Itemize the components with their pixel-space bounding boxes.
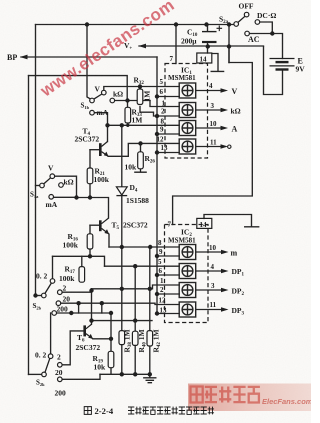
S2a pole contact (234, 22, 239, 27)
node L1 x150 (148, 245, 152, 249)
wire R40 hang (134, 266, 136, 331)
wire right drop to IC2 pin7 (173, 63, 253, 225)
wire inner left rail (28, 76, 30, 375)
S2b pole contact (42, 293, 47, 298)
wire to battery plus (272, 34, 282, 59)
wire S1b feed from rail (87, 25, 90, 100)
S1a kOhm contact (59, 183, 64, 188)
LED cell DP1 (179, 264, 196, 279)
wire IC2 bus stub pin6 (157, 274, 179, 276)
LED cell deg (179, 139, 196, 154)
IC2 pin14 label box (197, 218, 212, 228)
S1b pole contact (90, 98, 95, 103)
node S2b pole rail (33, 293, 37, 297)
wire inner rail top run (29, 76, 128, 101)
wire IC1 bus stub pin13 (157, 152, 179, 154)
node bus R42 ground (148, 372, 152, 376)
wire R42 bottom lead (149, 346, 151, 374)
S1a mA contact (49, 195, 54, 200)
V+ arrow head (139, 44, 147, 49)
S2k 20 contact (58, 377, 63, 382)
wire S2a pole junction vertical (228, 25, 230, 63)
S2b arm (45, 283, 52, 294)
wire IC1 out pin11 (196, 146, 221, 148)
node IC1 bus pin9 (155, 132, 159, 136)
node T5 emitter D4 (120, 245, 124, 249)
wire 0.2 contact S2b up lead (52, 256, 54, 278)
switch S1a contacts (40, 174, 64, 199)
S2a arm (238, 16, 245, 22)
arrow m out (221, 250, 229, 255)
wire AC contact run (249, 33, 272, 35)
resistors (bodies) (79, 89, 153, 368)
wire T6 emitter run (93, 339, 111, 352)
arrow DP2 out (221, 288, 229, 293)
S2k 2 contact (58, 363, 63, 368)
wire stub below L6 at 78.6 (78, 303, 80, 313)
wire T4 base (90, 149, 99, 151)
node R32 top (138, 84, 142, 88)
IC2 dashed box (165, 225, 209, 323)
resistor R26 (138, 152, 144, 169)
wire stub below L6 at 101.8 (101, 303, 103, 313)
arrow kOhm out (221, 108, 229, 113)
resistor R26 bottom bar terminal (134, 169, 147, 172)
node R16 bottom L2 (88, 254, 92, 258)
wire line L8 (92, 320, 153, 322)
wire battery negative return (264, 47, 283, 95)
node D4 column L5 (120, 287, 124, 291)
wire T6 collector (91, 321, 93, 325)
node R42 column L5 (148, 287, 152, 291)
wire IC1 pin7 stub (175, 25, 177, 64)
resistor R38 (119, 331, 125, 345)
wire R42 column vertical (149, 247, 151, 331)
S2a OFF contact (244, 12, 249, 17)
D4 cathode bar (116, 195, 127, 197)
node IC1 bus pin13 (155, 150, 159, 154)
wire T4 emitter run to pin12 line (108, 143, 179, 156)
wire tap to S1a pole (36, 185, 40, 187)
LED cell V (179, 83, 196, 98)
node IC2 bus pin9 (155, 254, 159, 258)
wire S2k 0.2 contact up lead (50, 313, 52, 354)
node R33 top kOhm (125, 98, 129, 102)
T4 emitter arrow (104, 152, 109, 157)
wire C10 bottom lead (207, 43, 209, 47)
wire IC1 bus stub pin6 (157, 96, 179, 98)
S2k 0.2 contact (48, 354, 53, 359)
wire 2 contact S2b run (62, 289, 92, 292)
node T6 emitter R19 (109, 337, 113, 341)
arrowheads IC1 outputs (221, 88, 229, 312)
arrow DP3 out (221, 307, 229, 312)
resistor R19 (108, 351, 114, 367)
wire S2k 20 contact run (62, 374, 100, 379)
S1a V contact (50, 174, 55, 179)
node L3 R40 (133, 264, 137, 268)
wire vertical from 2-contact node (91, 292, 93, 320)
wire IC1 out pin10 (196, 127, 221, 129)
wire S1a V contact run (55, 176, 77, 197)
wire line L2 (53, 256, 105, 266)
node rail-S1b (85, 22, 89, 26)
wire S1a node to T5 collector (77, 198, 109, 219)
wire IC2 bus stub pin13 (157, 313, 179, 315)
wire S1a mA contact run (53, 196, 76, 198)
arrow A out (221, 126, 229, 131)
S2k pole contact (42, 372, 47, 377)
wire top V+ rail (36, 24, 234, 26)
wire BP bus IC1 (156, 57, 158, 153)
S1b mA contact (90, 110, 95, 115)
node IC1 bus pin2 (155, 114, 159, 118)
wire IC1 bus stub pin2 (157, 115, 179, 117)
wire mA contact line (94, 113, 107, 126)
wire BP bus to IC2 (156, 153, 158, 314)
node S1a V-mA join (74, 195, 78, 199)
LED cell m (179, 245, 196, 260)
diode D4 (116, 187, 127, 195)
wire IC2 pin14 run to bar (204, 215, 259, 227)
T5 emitter arrow (104, 229, 109, 234)
wire IC1 out pin4 (196, 90, 221, 92)
wire R19 bottom lead (110, 368, 112, 375)
switch S2k contacts (42, 354, 62, 382)
wire R16 top lead (89, 225, 91, 234)
node rail-pin7 (174, 22, 178, 26)
LED cell A (179, 121, 196, 136)
wire R40 bottom lead (134, 345, 136, 374)
node R21 bottom (88, 195, 92, 199)
S2b 2 contact (58, 290, 63, 295)
node DC-AC join (270, 31, 274, 35)
node rail-C10 (204, 22, 208, 26)
battery E (270, 59, 295, 70)
wire R17 top lead (81, 256, 83, 266)
resistor R16 (87, 234, 93, 249)
node bus R40 (133, 372, 137, 376)
T6 emitter arrow (88, 334, 93, 339)
wire 200 contact S2b run L7 (56, 313, 111, 339)
S1b arm (94, 94, 102, 99)
wire T5 emitter down (108, 234, 110, 247)
wire R16 bottom lead (89, 249, 91, 256)
rotated resistor value labels (123, 91, 163, 353)
wire IC1 out pin3 (196, 109, 221, 111)
wire D4 top vertical (121, 125, 123, 186)
node L6 x78 (76, 301, 80, 305)
arrow V out (221, 88, 229, 93)
capacitor C10 (202, 32, 217, 42)
S2k arm (45, 358, 50, 372)
resistor R17 (79, 267, 85, 283)
BP arrow head (20, 55, 28, 60)
switch S2a contacts (234, 12, 260, 36)
LED cell DP2 (179, 283, 196, 298)
resistor R40 (132, 331, 138, 345)
node L7 x71 (69, 311, 73, 315)
wire DC contact run (260, 22, 273, 34)
wire T6 base run from S2k 2-contact (62, 331, 83, 365)
transistor T4 (100, 141, 108, 156)
wire line L1 to IC2 pin8 (109, 246, 179, 248)
S1a pole contact (40, 183, 45, 188)
scan noise overlay (0, 0, 1, 1)
S1b V contact (102, 90, 107, 95)
wire IC1 pin14 stub (207, 47, 209, 54)
wire R21 top lead (89, 150, 91, 168)
arrow deg out (221, 144, 229, 149)
LED cell DP3 (179, 302, 196, 317)
switch S2b contacts (42, 279, 63, 316)
node R33 bottom (126, 124, 129, 127)
wire R33 bottom lead (127, 123, 129, 125)
node rail-S2a drop (227, 22, 231, 26)
arrow DP1 out (221, 269, 229, 274)
wire IC1 pin14 box tail (211, 54, 223, 72)
node bus R38 (120, 372, 124, 376)
wire outer rail to S2b pole (36, 295, 42, 297)
node 2-contact node (89, 288, 93, 292)
LED cell kOhm (179, 103, 196, 118)
S2a DC contact (255, 20, 260, 25)
caption title pseudo CJK (128, 407, 214, 415)
wire IC2 out pin11 (196, 309, 222, 311)
IC1 dashed box (165, 64, 208, 159)
S2a AC contact (245, 31, 250, 36)
degree indicator circle output pin11 (228, 145, 231, 148)
wire line L5 to IC2 pin1 (92, 285, 180, 289)
wire T4 collector (107, 125, 109, 141)
wire kOhm contact line (115, 100, 151, 102)
wire 20 contact S2b run L6 (61, 303, 180, 304)
wire IC2 bus stub pin9 (157, 255, 179, 257)
wire IC2 out pin3 (196, 289, 222, 291)
switch S1b contacts (90, 90, 115, 115)
wire left outer rail (35, 25, 37, 296)
transistor T5 (100, 218, 109, 234)
wire V+ distribution line (139, 46, 264, 63)
S1a arm (44, 178, 51, 184)
node L8 T6 (89, 318, 93, 322)
wire R26 top lead (140, 143, 142, 151)
wire R33 top lead (127, 101, 129, 108)
wire T5 base (90, 224, 99, 226)
wire IC2 out pin4 (196, 270, 222, 272)
node R26 top (138, 141, 142, 145)
wire IC2 bus stub pin2 (157, 293, 179, 295)
S2b 200 contact (52, 311, 57, 316)
node IC2 bus pin13 (155, 311, 159, 315)
node V+ pin14 (206, 44, 210, 48)
S1b kOhm contact (110, 98, 115, 103)
watermark CJK pseudo text (191, 387, 260, 403)
node V+ S2a (227, 44, 231, 48)
node IC1 bus pin6 (155, 94, 159, 98)
wire IC2 out pin10 (196, 251, 222, 253)
IC1 pin14 label box (197, 53, 212, 63)
wire kOhm jog to pin1 (150, 101, 179, 107)
node IC2 bus pin2 (155, 292, 159, 296)
S2b 0.2 contact (50, 279, 55, 284)
wire R21 bottom lead (89, 184, 91, 198)
wire R38 bottom lead (121, 345, 123, 375)
LED cells IC1 (179, 83, 196, 317)
S2b 20 contact (56, 301, 61, 306)
node mA T4 collector (105, 123, 109, 127)
resistor R42 (147, 331, 153, 346)
C10 plus sign (217, 26, 223, 32)
wire IC1 bus stub pin9 (157, 133, 179, 135)
caption figure number (84, 407, 91, 415)
wire D4 cathode down to R38 (121, 196, 123, 331)
node L8 x135 (133, 318, 137, 322)
wire C10 top lead (207, 25, 209, 31)
node L6 x101 (100, 301, 104, 305)
resistor R33 (125, 107, 131, 123)
transistor T6 (85, 324, 93, 339)
node L7 x111 (109, 311, 113, 315)
resistor R32 (137, 89, 143, 105)
wire mA node to IC1 pin8 (108, 124, 180, 126)
wire line L3 to IC2 pin5 (105, 265, 180, 267)
node D4 top (120, 123, 124, 127)
wire inner rail to S2k pole (29, 373, 42, 375)
node IC2 bus pin6 (155, 273, 159, 277)
wire BP line (21, 56, 157, 58)
wire V contact line to IC1 pin5 (104, 87, 179, 91)
wire R32 bottom jog to bus (140, 107, 157, 117)
resistor R21 (87, 168, 93, 184)
ground symbol (144, 374, 156, 382)
wire bottom bus (100, 373, 150, 375)
